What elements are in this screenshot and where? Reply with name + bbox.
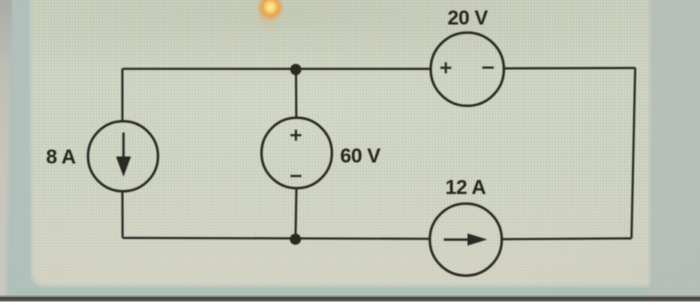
svg-text:8 A: 8 A	[46, 146, 76, 168]
svg-text:20 V: 20 V	[448, 7, 489, 29]
svg-text:60 V: 60 V	[340, 146, 381, 168]
svg-text:12 A: 12 A	[445, 177, 486, 199]
